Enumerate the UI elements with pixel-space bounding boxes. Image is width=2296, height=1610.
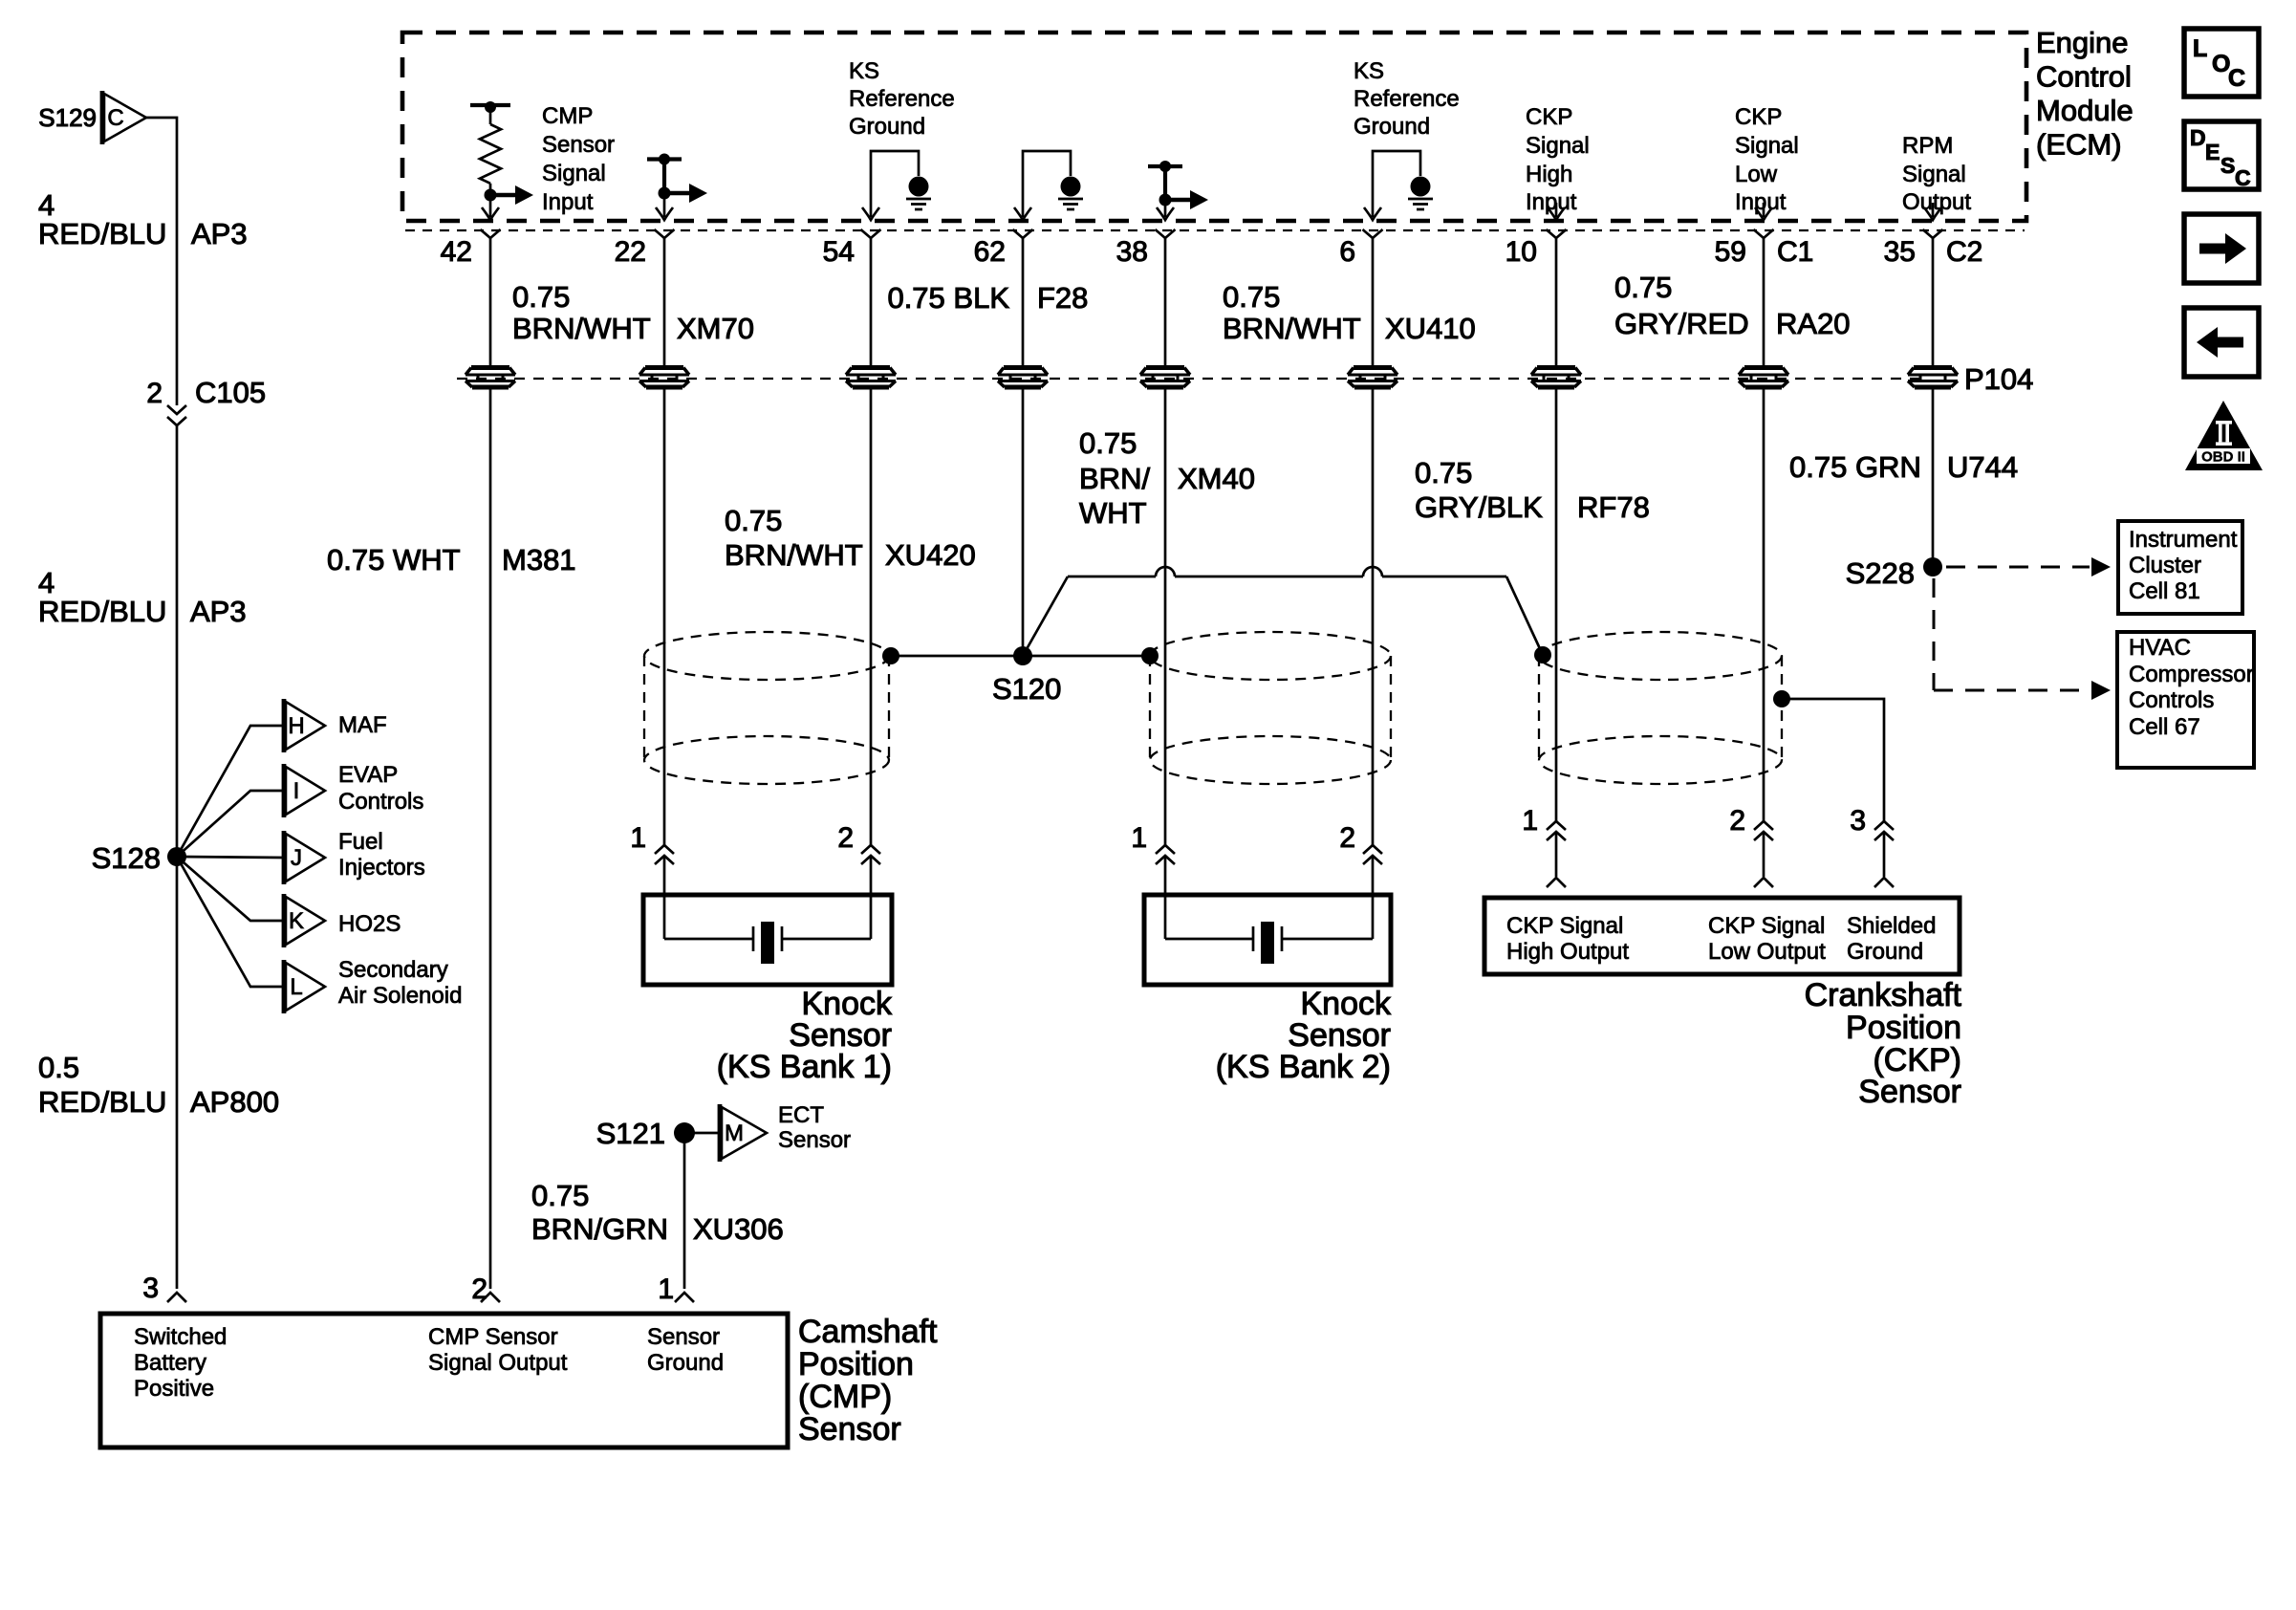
svg-text:54: 54 [823,236,855,268]
wire XU306 (S121 down to CMP pin 1) [683,1133,686,1289]
svg-text:XM40: XM40 [1178,462,1255,495]
dashed reference to instrument cluster [1946,557,2111,577]
pin 22 internal driver symbol [647,154,707,221]
wire S128 to triangle L [177,857,284,987]
CKP wire pin 2 to box [1754,832,1773,887]
ground (KS reference ground 2) [1364,151,1433,220]
svg-text:F28: F28 [1037,281,1088,315]
svg-text:(KS Bank 1): (KS Bank 1) [717,1049,892,1085]
wire label 0.75 GRY/BLK RF78 [1415,456,1650,524]
svg-text:Ground: Ground [647,1350,724,1376]
svg-text:XM70: XM70 [677,312,754,345]
svg-text:Switched: Switched [134,1324,227,1350]
svg-text:0.75 WHT: 0.75 WHT [327,543,461,577]
svg-text:J: J [291,845,302,871]
svg-text:Output: Output [1902,189,1971,215]
wire label 0.75 BRN/WHT XU410 [1223,280,1476,345]
wire AP3 lower segment [176,425,179,1289]
wire label 4 RED/BLU AP3 (upper) [38,188,248,250]
LOC icon box [2184,29,2259,97]
svg-text:S128: S128 [92,841,161,875]
svg-text:Sensor: Sensor [778,1127,851,1153]
wire pin 6 to connector [1372,238,1375,366]
svg-text:Low Output: Low Output [1708,939,1826,965]
svg-text:Cluster: Cluster [2129,553,2201,578]
right arrow icon box [2184,214,2259,283]
svg-text:KS: KS [1354,58,1384,84]
svg-text:C: C [2228,65,2245,92]
wire label 0.75 BRN/GRN XU306 [531,1179,784,1246]
svg-text:Low: Low [1735,162,1778,187]
connector triangle K [284,894,325,947]
shield ground wire to CKP pin 3 [1782,699,1884,821]
resistor (CMP sensor pull-up) [470,101,510,202]
svg-text:L: L [290,974,302,1000]
svg-text:Position: Position [798,1346,914,1382]
wire RF78 (pin 10 down) [1555,387,1558,821]
svg-text:Position: Position [1846,1010,1961,1046]
CMP pin 2 entry [471,1273,500,1305]
svg-text:Reference: Reference [1354,86,1460,112]
svg-text:ECT: ECT [778,1102,824,1128]
svg-text:CKP: CKP [1735,104,1782,130]
shield cylinder CKP [1539,632,1782,784]
pin 59 fork [1715,229,1774,268]
ECT Sensor label [778,1102,851,1153]
svg-text:Fuel: Fuel [338,829,383,855]
svg-text:2: 2 [471,1273,487,1305]
wire pin 10 to connector [1555,238,1558,366]
pin 54 fork [823,229,881,268]
pin 10 fork [1505,229,1567,268]
wire label 0.75 BRN/WHT XM70 [512,280,754,345]
svg-text:MAF: MAF [338,712,387,738]
ECM module dashed box [402,33,2026,221]
svg-text:CMP: CMP [542,103,593,129]
CKP connector chevrons pin 3 [1850,805,1894,840]
in-line connector P104 (wire 59) [1739,368,1788,388]
connector triangle J [284,831,325,884]
KS Reference Ground label 1 [849,58,955,140]
in-line connector P104 (wire 38) [1140,368,1190,388]
knock sensor box (KS Bank 1) [643,895,892,985]
wire XM70 (pin 22 down) [663,387,666,845]
wire S128 to triangle K [177,857,284,921]
wire label 0.75 BRN/WHT XM40 [1079,426,1255,530]
junction S120 net wires [891,567,1543,656]
junction dot shield3 right drain [1773,690,1790,707]
svg-text:3: 3 [142,1273,159,1304]
svg-text:RED/BLU: RED/BLU [38,1085,166,1119]
connector C105 [146,376,266,425]
crystal element (KS Bank 1) [664,856,871,964]
svg-text:Cell 81: Cell 81 [2129,578,2200,604]
DESC icon box [2184,121,2259,190]
svg-text:2: 2 [146,378,162,409]
svg-text:(ECM): (ECM) [2036,128,2122,162]
CKP wire pin 1 to box [1547,832,1566,887]
pin 10 internal arrow [1548,203,1565,220]
svg-text:XU420: XU420 [885,538,976,572]
svg-text:KS: KS [849,58,879,84]
svg-text:EVAP: EVAP [338,762,398,788]
svg-text:Controls: Controls [338,789,423,815]
svg-text:Controls: Controls [2129,687,2214,713]
svg-text:RA20: RA20 [1776,307,1851,340]
CMP signal arrow (internal) [482,185,533,220]
svg-text:AP800: AP800 [190,1085,279,1119]
wire XM40 (pin 38 down) [1164,387,1167,845]
wire pin 59 to connector [1763,238,1765,366]
svg-text:Sensor: Sensor [542,132,615,158]
svg-text:RED/BLU: RED/BLU [38,595,166,628]
junction dot (shield 2 drain) [1141,647,1159,664]
ground (pin 62) [1014,151,1083,220]
svg-text:D: D [2190,125,2206,150]
svg-text:Engine: Engine [2036,26,2129,59]
svg-text:Sensor: Sensor [798,1411,901,1447]
svg-text:S129: S129 [38,103,97,132]
Camshaft Position (CMP) Sensor label [798,1314,938,1447]
connector triangle S129 C [38,91,146,144]
svg-text:0.75 GRN: 0.75 GRN [1789,450,1921,484]
connector triangle H [284,699,325,752]
svg-text:Positive: Positive [134,1376,214,1402]
pin 35 internal arrow [1924,203,1941,220]
wire XU410 (pin 6 down) [1372,387,1375,845]
wire pin 38 to connector [1164,238,1167,366]
connector triangle M (ECT) [720,1104,767,1162]
svg-text:2: 2 [1729,805,1745,837]
svg-text:HVAC: HVAC [2129,635,2191,661]
svg-text:C105: C105 [195,376,266,409]
ECM connector dashed line [405,229,2025,231]
svg-text:Ground: Ground [1847,939,1923,965]
svg-text:C2: C2 [1946,236,1982,268]
knock sensor box (KS Bank 2) [1144,895,1391,985]
wire M381 (pin 42 down to CMP pin 2) [489,387,492,1289]
svg-text:RPM: RPM [1902,133,1953,159]
in-line connector P104 (wire 10) [1531,368,1581,388]
svg-text:Instrument: Instrument [2129,527,2238,553]
left arrow icon box [2184,308,2259,377]
junction S128 [92,841,186,875]
in-line connector P104 (wire 62) [998,368,1048,388]
svg-text:BRN/GRN: BRN/GRN [531,1212,668,1246]
svg-text:K: K [289,908,304,934]
svg-text:3: 3 [1850,805,1866,837]
svg-text:CMP Sensor: CMP Sensor [428,1324,558,1350]
junction dot (shield 3 drain) [1534,646,1551,664]
CKP Signal High Input label [1526,104,1590,215]
wire from S129 to main battery feed [146,118,177,405]
svg-text:S120: S120 [992,672,1061,706]
pin 38 fork [1116,229,1176,268]
wire label 0.75 GRN U744 [1789,450,2018,484]
svg-text:0.75 BLK: 0.75 BLK [887,281,1009,315]
wire S128 to triangle J [177,857,284,858]
svg-text:CKP Signal: CKP Signal [1708,913,1825,939]
connector triangle L [284,960,325,1013]
CKP connector chevrons pin 2 [1729,805,1773,840]
svg-text:0.75: 0.75 [725,504,782,537]
wire pin 42 to connector [489,238,492,366]
connector chevrons pin 1 (KS Bank 1) [630,822,674,864]
KS Reference Ground label 2 [1354,58,1460,140]
shield cylinder KS bank 2 [1150,632,1391,784]
svg-text:C: C [107,105,123,131]
svg-text:OBD II: OBD II [2201,449,2245,466]
svg-text:Injectors: Injectors [338,855,425,881]
svg-text:AP3: AP3 [190,595,247,628]
svg-text:High Output: High Output [1506,939,1629,965]
svg-text:L: L [2193,35,2207,62]
CMP box pin labels [134,1324,724,1402]
svg-text:0.75: 0.75 [1415,456,1472,490]
svg-text:E: E [2205,140,2220,164]
svg-text:Camshaft: Camshaft [798,1314,938,1350]
CMP pin 1 entry [658,1273,694,1305]
junction dot (shield 1 drain) [882,647,899,664]
svg-text:42: 42 [441,236,472,268]
wire pin 62 to connector [1022,238,1025,366]
wire S128 to triangle I [177,791,284,857]
svg-text:Cell 67: Cell 67 [2129,714,2200,740]
wire S128 to triangle H [177,726,284,857]
wire label 4 RED/BLU AP3 (lower) [38,566,247,628]
CKP wire pin 3 to box [1874,832,1894,887]
svg-text:XU306: XU306 [693,1212,784,1246]
connector row P104 dashed line [457,378,1921,380]
dashed reference to HVAC compressor controls [1934,578,2111,700]
shield cylinder KS bank 1 [644,632,889,784]
svg-text:BRN/WHT: BRN/WHT [1223,312,1361,345]
svg-text:BRN/: BRN/ [1079,462,1150,495]
in-line connector P104 (wire 22) [639,368,689,388]
OBD II triangle icon [2185,401,2263,470]
in-line connector P104 (wire 35) [1908,368,1958,388]
Knock Sensor (KS Bank 2) label [1216,986,1392,1085]
svg-text:U744: U744 [1947,450,2018,484]
svg-text:Signal Output: Signal Output [428,1350,568,1376]
svg-text:Sensor: Sensor [647,1324,720,1350]
fan-out destination labels [338,712,462,1009]
svg-text:S: S [2220,153,2235,178]
svg-text:BRN/WHT: BRN/WHT [512,312,651,345]
svg-text:(CMP): (CMP) [798,1379,892,1415]
CKP box pin labels [1506,913,1936,965]
svg-text:RED/BLU: RED/BLU [38,217,166,250]
wire U744 (pin 35 down to S228) [1932,387,1935,567]
wire label 0.75 BRN/WHT XU420 [725,504,976,572]
wire pin 22 to connector [663,238,666,366]
svg-text:1: 1 [1522,805,1538,837]
svg-text:Signal: Signal [1902,162,1966,187]
svg-text:S228: S228 [1846,556,1915,590]
svg-text:(KS Bank 2): (KS Bank 2) [1216,1049,1391,1085]
connector triangle I [284,764,325,817]
svg-text:Sensor: Sensor [1858,1074,1961,1110]
svg-text:M: M [725,1120,744,1146]
junction S120 [1013,646,1032,665]
svg-text:Input: Input [1735,189,1787,215]
pin 6 fork [1339,229,1382,268]
svg-text:CKP: CKP [1526,104,1572,130]
wire label 0.75 WHT M381 [327,543,576,577]
svg-text:C: C [2235,165,2251,190]
svg-text:Ground: Ground [849,114,925,140]
wire pin 35 to connector [1932,238,1935,366]
connector chevrons pin 2 (KS Bank 1) [837,822,880,864]
svg-text:1: 1 [1131,822,1147,854]
svg-text:Compressor: Compressor [2129,662,2254,687]
svg-text:59: 59 [1715,236,1746,268]
wire S121 to ECT triangle [684,1132,720,1135]
svg-text:2: 2 [837,822,854,854]
camshaft position CMP sensor box [100,1314,788,1447]
RPM Signal Output label [1902,133,1971,215]
wire XU420 (pin 54 down) [870,387,873,845]
pin 35 fork [1884,229,1943,268]
wire label 0.75 GRY/RED RA20 [1614,271,1851,340]
svg-text:Secondary: Secondary [338,957,448,983]
connector chevrons pin 1 (KS Bank 2) [1131,822,1175,864]
Crankshaft Position (CKP) Sensor label [1805,977,1962,1110]
svg-text:1: 1 [630,822,646,854]
svg-text:10: 10 [1505,236,1537,268]
pin 59 internal arrow [1755,203,1772,220]
in-line connector P104 (wire 42) [466,368,515,388]
wire F28 (pin 62 down to S120) [1022,387,1025,656]
svg-text:0.75: 0.75 [512,280,570,314]
svg-text:GRY/RED: GRY/RED [1614,307,1749,340]
CKP sensor box [1484,898,1960,974]
svg-text:M381: M381 [502,543,576,577]
pin 38 internal driver symbol [1148,161,1208,220]
svg-text:P104: P104 [1964,362,2033,396]
svg-text:Crankshaft: Crankshaft [1805,977,1962,1013]
svg-text:I: I [293,778,300,804]
Instrument Cluster Cell 81 box [2118,521,2242,614]
junction S121 [596,1117,695,1150]
svg-text:Ground: Ground [1354,114,1430,140]
svg-text:S121: S121 [596,1117,665,1150]
ground (KS reference ground 1) [862,151,931,220]
pin 42 fork [441,229,501,268]
ECM title text [2036,26,2134,162]
svg-text:RF78: RF78 [1577,490,1650,524]
wire RA20 (pin 59 down) [1763,387,1765,821]
svg-text:WHT: WHT [1079,496,1147,530]
svg-text:1: 1 [658,1273,674,1305]
CMP pin 3 entry [142,1273,186,1304]
in-line connector P104 (wire 54) [846,368,896,388]
svg-text:35: 35 [1884,236,1916,268]
pin 62 fork [974,229,1033,268]
svg-text:0.75: 0.75 [531,1179,589,1212]
CKP connector chevrons pin 1 [1522,805,1566,840]
Knock Sensor (KS Bank 1) label [717,986,893,1085]
svg-text:Air Solenoid: Air Solenoid [338,983,462,1009]
svg-text:2: 2 [1339,822,1355,854]
svg-text:Input: Input [542,189,594,215]
in-line connector P104 (wire 6) [1348,368,1397,388]
svg-text:C1: C1 [1777,236,1813,268]
svg-text:6: 6 [1339,236,1355,268]
svg-text:Signal: Signal [542,161,606,186]
crystal element (KS Bank 2) [1165,856,1373,964]
svg-text:GRY/BLK: GRY/BLK [1415,490,1543,524]
wire label 0.75 BLK F28 [887,281,1088,315]
svg-text:Signal: Signal [1735,133,1799,159]
svg-text:AP3: AP3 [191,217,248,250]
svg-text:Module: Module [2036,94,2134,127]
HVAC Compressor Controls Cell 67 box [2117,632,2254,768]
svg-text:0.75: 0.75 [1614,271,1672,304]
wire label 0.5 RED/BLU AP800 [38,1051,279,1119]
svg-text:0.75: 0.75 [1223,280,1280,314]
connector chevrons pin 2 (KS Bank 2) [1339,822,1382,864]
svg-text:HO2S: HO2S [338,911,401,937]
svg-text:XU410: XU410 [1385,312,1476,345]
svg-text:Shielded: Shielded [1847,913,1936,939]
svg-text:Battery: Battery [134,1350,206,1376]
svg-text:Reference: Reference [849,86,955,112]
wire pin 54 to connector [870,238,873,366]
svg-text:H: H [288,713,304,739]
svg-text:0.75: 0.75 [1079,426,1137,460]
svg-text:38: 38 [1116,236,1148,268]
svg-text:Control: Control [2036,60,2132,94]
svg-text:Signal: Signal [1526,133,1590,159]
svg-text:High: High [1526,162,1572,187]
svg-text:0.5: 0.5 [38,1051,79,1084]
CMP Sensor Signal Input label [542,103,615,215]
pin 22 fork [615,229,675,268]
svg-text:BRN/WHT: BRN/WHT [725,538,863,572]
junction S228 [1846,556,1942,590]
svg-text:22: 22 [615,236,646,268]
svg-text:CKP Signal: CKP Signal [1506,913,1623,939]
CKP Signal Low Input label [1735,104,1799,215]
svg-text:62: 62 [974,236,1006,268]
